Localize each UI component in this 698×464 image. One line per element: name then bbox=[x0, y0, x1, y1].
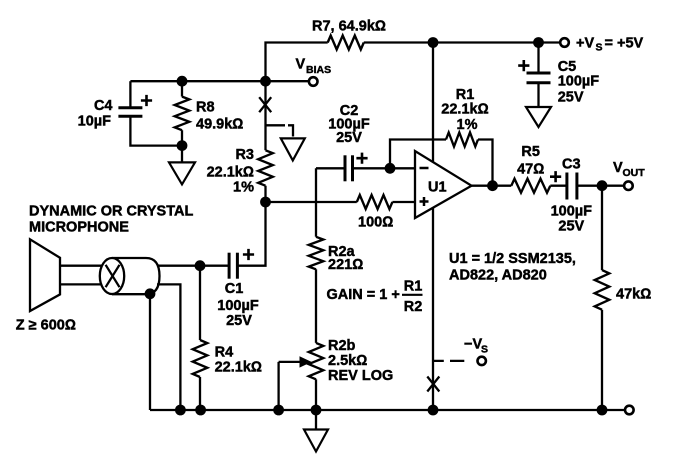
capacitor C5 bbox=[518, 43, 599, 108]
wire top supply rail left segment bbox=[266, 43, 328, 82]
wire op-amp supply vertical bottom bbox=[432, 208, 434, 411]
terminal ground rail right bbox=[625, 406, 634, 415]
label dynamic or crystal microphone bbox=[29, 204, 193, 236]
svg-text:U1: U1 bbox=[428, 180, 447, 196]
capacitor C2 bbox=[316, 103, 390, 182]
svg-text:R2: R2 bbox=[404, 299, 423, 315]
node rail R4 junction bbox=[195, 405, 206, 416]
svg-text:OUT: OUT bbox=[623, 167, 646, 179]
node mic signal junction bbox=[195, 260, 206, 271]
svg-text:MICROPHONE: MICROPHONE bbox=[29, 220, 129, 236]
capacitor C4 bbox=[78, 81, 182, 145]
wire C2/R2 gain branch vertical bbox=[315, 168, 317, 237]
wire connector lower jog bbox=[157, 284, 180, 410]
node R8/C4 bottom junction bbox=[177, 140, 188, 151]
node connector shield junction bbox=[145, 288, 156, 299]
svg-text:C3: C3 bbox=[562, 157, 581, 173]
svg-text:U1 = 1/2 SSM2135,: U1 = 1/2 SSM2135, bbox=[449, 251, 576, 267]
resistor R7 bbox=[312, 19, 386, 50]
svg-text:+V: +V bbox=[576, 36, 594, 52]
terminal -VS with dashed stub bbox=[433, 337, 488, 365]
label gain formula bbox=[327, 278, 423, 315]
wire op-amp supply vertical top bbox=[432, 43, 434, 163]
node VOUT junction bbox=[597, 180, 608, 191]
svg-text:C4: C4 bbox=[94, 98, 113, 114]
svg-text:1%: 1% bbox=[233, 179, 254, 195]
node rail 47k junction bbox=[597, 405, 608, 416]
svg-text:100µF: 100µF bbox=[217, 298, 259, 314]
terminal +VS = +5V bbox=[560, 36, 643, 54]
optional dashed ground stub bbox=[266, 125, 305, 160]
svg-text:1%: 1% bbox=[457, 117, 478, 133]
mic horn cone bbox=[30, 239, 60, 311]
svg-text:25V: 25V bbox=[558, 218, 584, 234]
svg-text:22.1kΩ: 22.1kΩ bbox=[441, 102, 488, 118]
resistor R4 bbox=[193, 266, 262, 410]
wire inverting input bbox=[390, 167, 415, 169]
svg-text:R8: R8 bbox=[196, 100, 215, 116]
svg-text:22.1kΩ: 22.1kΩ bbox=[215, 359, 262, 375]
svg-text:R3: R3 bbox=[235, 147, 254, 163]
svg-text:100µF: 100µF bbox=[558, 74, 600, 90]
resistor R5 bbox=[511, 144, 567, 193]
svg-text:DYNAMIC OR CRYSTAL: DYNAMIC OR CRYSTAL bbox=[29, 204, 193, 220]
node supply tap junction bbox=[428, 37, 439, 48]
ground below C5 bbox=[526, 107, 551, 127]
svg-text:BIAS: BIAS bbox=[306, 64, 331, 76]
wire VBIAS rail bbox=[130, 80, 308, 82]
node rail jog junction bbox=[175, 405, 186, 416]
wire mic neck lines bbox=[60, 266, 104, 285]
wire top supply rail right segment bbox=[364, 41, 561, 43]
wire node A to 100 ohm resistor bbox=[266, 201, 357, 203]
svg-text:S: S bbox=[596, 42, 603, 54]
resistor 47k load bbox=[595, 270, 652, 410]
node rail wiper junction bbox=[273, 405, 284, 416]
terminal VBIAS bbox=[296, 57, 332, 86]
wire vertical VBIAS to R3 bbox=[264, 81, 266, 150]
op-amp U1 bbox=[415, 151, 472, 218]
svg-text:V: V bbox=[613, 160, 623, 176]
svg-text:R5: R5 bbox=[521, 144, 540, 160]
node R3 branch junction bbox=[260, 76, 271, 87]
no-connect X mark on R3 branch bbox=[259, 97, 271, 112]
svg-text:S: S bbox=[481, 344, 488, 356]
svg-text:47Ω: 47Ω bbox=[517, 161, 544, 177]
svg-text:R1: R1 bbox=[404, 278, 423, 294]
node rail pot-bottom junction bbox=[311, 405, 322, 416]
capacitor C1 bbox=[217, 202, 265, 329]
svg-text:2.5kΩ: 2.5kΩ bbox=[328, 353, 367, 369]
connector barrel bbox=[100, 258, 160, 294]
resistor 100 ohm bbox=[357, 195, 415, 231]
svg-text:100Ω: 100Ω bbox=[358, 215, 393, 231]
svg-text:25V: 25V bbox=[226, 313, 252, 329]
no-connect X mark on -VS branch bbox=[427, 377, 439, 392]
svg-text:10µF: 10µF bbox=[78, 113, 111, 129]
svg-text:221Ω: 221Ω bbox=[328, 257, 363, 273]
node inverting input junction bbox=[385, 163, 396, 174]
svg-text:R7, 64.9kΩ: R7, 64.9kΩ bbox=[312, 19, 386, 35]
wire output to R5 bbox=[472, 185, 512, 187]
wire shield down to ground rail bbox=[149, 294, 151, 410]
svg-text:V: V bbox=[296, 57, 306, 73]
label U1 device note bbox=[449, 251, 576, 284]
wire feedback loop bbox=[390, 140, 493, 186]
ground below R8 bbox=[169, 146, 195, 185]
svg-text:25V: 25V bbox=[558, 89, 584, 105]
terminal VOUT bbox=[602, 160, 645, 190]
resistor R1 bbox=[441, 87, 488, 147]
svg-text:R2b: R2b bbox=[328, 338, 356, 354]
resistor R3 bbox=[207, 147, 273, 202]
ground below potentiometer bbox=[304, 410, 328, 452]
svg-text:= +5V: = +5V bbox=[605, 36, 644, 52]
node A signal junction bbox=[260, 197, 271, 208]
svg-text:47kΩ: 47kΩ bbox=[616, 287, 651, 303]
svg-text:22.1kΩ: 22.1kΩ bbox=[207, 164, 254, 180]
potentiometer R2b bbox=[279, 338, 394, 410]
node C5 tap junction bbox=[533, 37, 544, 48]
wire VOUT node down to 47k bbox=[601, 186, 603, 270]
resistor R8 bbox=[175, 81, 244, 145]
svg-text:REV LOG: REV LOG bbox=[328, 368, 393, 384]
resistor R2a bbox=[309, 237, 364, 343]
svg-text:C5: C5 bbox=[558, 59, 577, 75]
svg-text:−V: −V bbox=[464, 337, 482, 353]
svg-text:25V: 25V bbox=[336, 130, 362, 146]
wire mic signal to C1 bbox=[157, 265, 229, 267]
node rail supply junction bbox=[428, 405, 439, 416]
node R8 top junction bbox=[177, 76, 188, 87]
svg-text:C1: C1 bbox=[225, 281, 244, 297]
wire bottom ground rail bbox=[150, 409, 625, 411]
node output junction bbox=[487, 180, 498, 191]
svg-text:AD822, AD820: AD822, AD820 bbox=[449, 268, 547, 284]
svg-text:49.9kΩ: 49.9kΩ bbox=[196, 116, 243, 132]
svg-text:R4: R4 bbox=[215, 344, 234, 360]
capacitor C3 bbox=[550, 157, 602, 235]
svg-text:Z ≥ 600Ω: Z ≥ 600Ω bbox=[16, 317, 76, 333]
svg-text:100µF: 100µF bbox=[551, 204, 593, 220]
svg-text:GAIN = 1 +: GAIN = 1 + bbox=[327, 287, 400, 303]
